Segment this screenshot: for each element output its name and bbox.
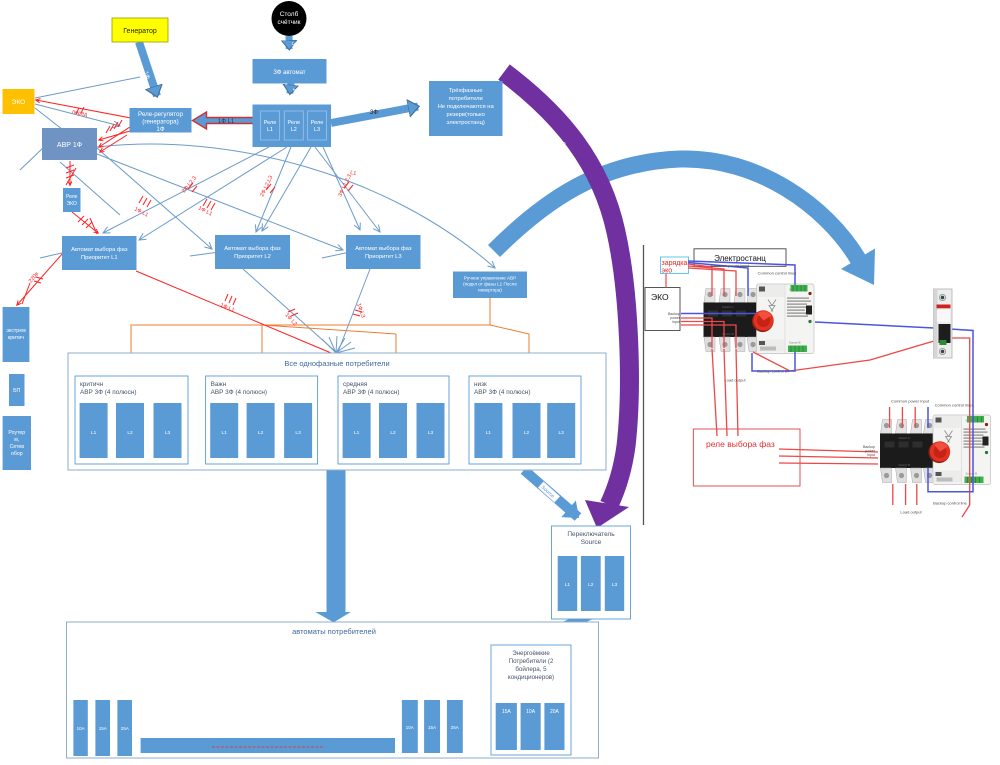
wire red fan tail [300,353,336,366]
breaker 25А [117,700,132,756]
svg-text:10А: 10А [77,726,85,731]
svg-text:Приоритет L2: Приоритет L2 [234,254,271,260]
wire red feed 1 [688,264,712,296]
box Автомат выбора фаз L1 [62,236,137,270]
ticks on 1Ф L1 line a [139,196,151,207]
svg-text:низк: низк [474,381,487,388]
svg-text:Реле: Реле [288,120,301,126]
bus bar long [141,738,395,753]
ticks on 3Ф L1,2,3 [344,182,353,191]
device ATS 1 [704,284,815,354]
wire red breaker to device2 [950,338,970,517]
ticks near перед [76,107,84,114]
wire Автомат L1 to fan node [136,271,343,358]
wire Реле-регулятор to АВР 1Ф (two strands) [99,131,130,140]
svg-text:20А: 20А [550,709,560,715]
svg-text:АВР 3Ф (4 полюсн): АВР 3Ф (4 полюсн) [343,389,399,396]
svg-text:критичн: критичн [80,381,104,388]
arrow big down to автоматы потребителей [315,470,351,623]
svg-text:АВР 3Ф (4 полюсн): АВР 3Ф (4 полюсн) [211,389,267,396]
wire device2 common power feeds [889,407,891,428]
wire Реле box to Автомат выбора L3 top-left [323,147,360,230]
svg-text:L1: L1 [354,430,360,436]
svg-text:3Ф: 3Ф [370,110,378,116]
wire Реле-регулятор to ЭКО [36,100,131,118]
svg-text:средняя: средняя [343,381,368,388]
svg-text:Приоритет L3: Приоритет L3 [365,254,402,260]
breaker 15А right [424,700,440,753]
wire зарядка to ЭКО [665,274,667,288]
wire ЭКО to upper right [35,77,140,98]
wire load output down to реле выбора фаз [712,349,717,436]
svg-text:эко: эко [662,268,673,275]
box Реле-регулятор [130,108,192,133]
svg-text:потребители: потребители [449,96,483,102]
svg-text:ЭКО: ЭКО [12,99,25,106]
svg-text:L3: L3 [612,582,618,588]
svg-text:L1: L1 [565,582,571,588]
arrow Переключатель to Энергоёмкие [542,612,596,637]
wire blue to terminal 4 [688,263,748,297]
box средняя [338,376,449,464]
arrow Реле to Реле-регулятор (red outline) [193,112,262,129]
wire Реле L2 to Автомат выбора L1 [139,147,287,240]
svg-text:Backup control line: Backup control line [933,501,968,506]
node Столб счётчик [272,1,307,36]
svg-text:L1: L1 [267,127,273,133]
box АВР 1Ф [42,128,97,160]
wire blue common control [688,261,795,285]
svg-text:10А: 10А [406,725,414,730]
svg-text:зарядка: зарядка [662,260,688,267]
svg-text:L2: L2 [524,430,530,436]
svg-text:Load output: Load output [900,510,922,515]
box Трёхфазные потребители [429,81,503,136]
svg-text:АВР 3Ф (4 полюсн): АВР 3Ф (4 полюсн) [80,389,136,396]
wire into Автомат L3 left [322,252,350,258]
box Роутер [3,416,31,470]
svg-text:1Ф: 1Ф [291,88,297,95]
svg-text:Автомат выбора фаз: Автомат выбора фаз [71,247,128,253]
svg-text:L2: L2 [588,582,594,588]
wire backup power red [681,318,712,348]
breaker 25А right [447,700,463,753]
wire Ручное АВР down [131,298,490,376]
svg-text:Сетев: Сетев [10,444,25,450]
svg-text:м,: м, [14,437,19,443]
wire Реле ЭКО to Автомат L1 [72,212,98,233]
arrow Реле to Трёхфазные потребители [331,107,418,124]
box Ручное управление АВР [453,272,527,299]
ticks on АВР-РелеЭКО [66,165,74,178]
wire red feed 3 [688,268,736,296]
svg-text:L1: L1 [350,170,357,177]
box Электростанц [694,249,786,266]
svg-text:БП: БП [13,388,20,394]
wire Реле L1 to Автомат выбора L1 [103,147,269,233]
svg-text:L3: L3 [428,430,434,436]
box автоматы потребителей [67,622,599,758]
box ЭКО orange [3,89,35,114]
svg-text:Common power input: Common power input [891,399,930,404]
svg-text:ЭКО: ЭКО [651,292,669,302]
wire blue bottom loop dev1 [752,352,795,371]
svg-text:Source: Source [581,539,602,546]
ticks on 2Ф L2,3 [188,183,197,192]
wire to низк [490,325,529,376]
svg-text:Реле: Реле [264,120,277,126]
wire реле выбора фаз to device2 backup input [779,449,878,452]
svg-text:Реле: Реле [66,194,78,200]
svg-text:Столб: Столб [280,10,299,18]
wire ЭКО to АВР 1Ф [35,104,120,126]
svg-text:input: input [867,453,875,457]
svg-text:Переключатель: Переключатель [567,531,615,538]
wire device2 load output [892,484,894,505]
svg-text:25А: 25А [121,726,129,731]
svg-text:критич: критич [8,335,24,341]
arrow Генератор to Реле-регулятор [139,42,157,96]
svg-text:L2: L2 [258,430,264,436]
svg-text:L3: L3 [295,430,301,436]
wire into Автомат L2 left [190,252,219,256]
box Реле ЭКО [63,188,81,212]
svg-text:10А: 10А [526,709,536,715]
svg-text:инвертора): инвертора) [478,288,502,293]
box ЭКО [645,288,680,331]
box Энергоёмкие [491,645,571,755]
breaker 10А right [402,700,418,753]
svg-text:бойлера, 5: бойлера, 5 [515,666,547,673]
wire Автомат L1 to экстрем критич [17,253,63,305]
wire Реле L3 to Автомат выбора L3 [315,147,380,232]
wire Автомат L2 to fan node [243,269,336,352]
svg-text:input: input [672,320,680,324]
svg-text:Не подключаются на: Не подключаются на [438,104,495,110]
ticks on 2Ф L2,L3 mid [266,184,275,193]
svg-text:Реле: Реле [311,120,324,126]
svg-text:автоматы потребителей: автоматы потребителей [292,627,376,636]
svg-text:Common control lines: Common control lines [935,403,974,408]
svg-text:электростанц): электростанц) [447,120,485,126]
svg-text:Приоритет L1: Приоритет L1 [81,255,118,261]
breaker 15А [95,700,110,756]
svg-text:Потребители (2: Потребители (2 [509,658,554,665]
box Автомат выбора фаз L2 [215,235,290,269]
box 3Ф автомат [253,59,327,84]
svg-text:L2: L2 [390,430,396,436]
wire АВР 1Ф to Автомат L3 [97,154,343,250]
svg-text:L2: L2 [127,430,133,436]
wire Автомат L3 to fan node [338,269,370,352]
box низк [469,376,581,464]
box БП [9,374,25,406]
ticks on L3-fan [353,310,362,316]
svg-text:Энергоёмкие: Энергоёмкие [512,650,550,657]
svg-text:3Ф: 3Ф [290,42,296,49]
svg-text:Все однофазные потребители: Все однофазные потребители [284,359,389,368]
svg-text:Автомат выбора фаз: Автомат выбора фаз [224,246,281,252]
device ATS 2 [880,415,991,485]
ticks on L1-fan red line [225,294,236,305]
box Реле L1 L2 L3 [253,105,332,148]
svg-text:1Ф L1: 1Ф L1 [218,119,235,125]
ticks on L2-fan [288,309,298,316]
ticks on рег-АВР line [106,120,122,133]
svg-text:Common power input: Common power input [711,263,750,268]
svg-text:счётчик: счётчик [277,19,300,26]
wire Реле L2 to Автомат выбора L2 [256,147,291,232]
wire to Важн [261,325,263,376]
svg-text:обор: обор [11,451,23,457]
breaker 10А [73,700,87,756]
svg-text:Трёхфазные: Трёхфазные [449,88,483,94]
svg-text:Backup control lin: Backup control lin [757,369,789,374]
arrow big purple curve [504,72,629,505]
wire red to breaker [753,341,934,371]
box критичн [75,376,188,464]
arrow container to Переключатель [524,470,578,517]
svg-text:L1: L1 [91,430,97,436]
svg-text:25А: 25А [451,725,459,730]
svg-text:1Ф: 1Ф [156,126,164,133]
svg-text:резерв(только: резерв(только [447,112,485,118]
svg-text:L3: L3 [165,430,171,436]
wire to средняя [395,334,397,376]
box экстрем критич [3,307,30,362]
wire Реле L3 to Автомат выбора L2 [262,147,311,231]
box зарядка эко [661,257,689,274]
svg-text:Ручное управление АВР: Ручное управление АВР [464,276,516,281]
box реле выбора фаз [693,429,800,486]
arrow big blue curve to right side [494,159,858,259]
arrow Столб to 3Ф автомат [286,36,293,49]
box Автомат выбора фаз L3 [346,235,421,269]
svg-text:реле выбора фаз: реле выбора фаз [706,439,775,449]
svg-text:Автомат выбора фаз: Автомат выбора фаз [355,246,412,252]
node fan rays [322,336,355,353]
ticks on 220в [34,277,43,283]
svg-text:АВР 1Ф: АВР 1Ф [57,142,82,149]
svg-text:15А: 15А [502,709,512,715]
generator box [112,18,168,42]
box Важн [206,376,318,464]
svg-text:кондиционеров): кондиционеров) [508,674,554,681]
svg-text:L3: L3 [314,127,320,133]
arrow 3Ф автомат to Реле [290,83,291,94]
svg-text:L1: L1 [222,430,228,436]
wire АВР 1Ф to Автомат L2 [97,148,212,249]
svg-text:L2: L2 [291,127,297,133]
svg-text:(генератора): (генератора) [142,119,178,126]
svg-text:L3: L3 [559,430,565,436]
svg-text:(подкл от фазы L1 После: (подкл от фазы L1 После [463,282,517,287]
svg-text:Common control lines: Common control lines [758,271,797,276]
label Source small [538,482,560,503]
wire blue long control to breaker and device2 [815,322,934,328]
ticks on РелеЭКО-L1 [78,216,92,228]
svg-text:экстрем: экстрем [6,328,26,334]
svg-text:Важн: Важн [211,381,227,388]
wire curved АВР 1Ф to Ручное управление АВР [97,144,495,268]
svg-text:Роутер: Роутер [8,430,25,436]
svg-text:Реле-регулятор: Реле-регулятор [138,111,183,118]
wire blue backup input [681,313,756,315]
svg-text:L1: L1 [486,430,492,436]
box Переключатель Source [552,526,631,619]
wire red dashed on bus [212,746,323,748]
wire АВР 1Ф bottom fan [60,162,120,215]
svg-text:Load output: Load output [724,378,746,383]
breaker MCB [934,289,953,358]
ticks on 1Ф L1 line b [203,199,215,210]
wire into Автомат L1 left [40,252,66,258]
svg-text:АВР 3Ф (4 полюсн): АВР 3Ф (4 полюсн) [474,389,530,396]
wire blue device2 top [927,407,929,428]
svg-text:15А: 15А [428,725,436,730]
svg-text:3Ф автомат: 3Ф автомат [273,70,305,76]
divider line [643,245,645,525]
wire into АВР 1Ф left [35,108,95,155]
wire АВР 1Ф to Реле ЭКО [69,161,71,185]
svg-text:15А: 15А [99,726,107,731]
svg-text:Генератор: Генератор [123,28,157,35]
svg-text:ЭКО: ЭКО [67,201,77,207]
wire red feed 2 [688,266,724,296]
